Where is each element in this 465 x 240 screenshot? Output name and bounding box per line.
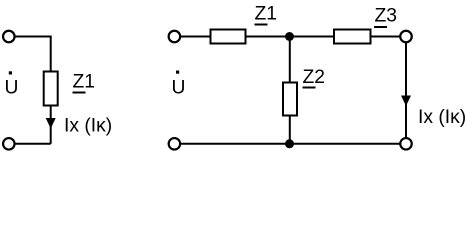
terminal (right circuit, top-left) bbox=[169, 31, 181, 43]
terminal (left circuit, bottom-left) bbox=[3, 138, 15, 150]
wire (left circuit, from top terminal right then down to Z1) bbox=[15, 37, 50, 72]
svg-text:Ix (Iκ): Ix (Iκ) bbox=[64, 116, 112, 137]
wire (right circuit, bottom rail) bbox=[181, 143, 400, 145]
terminal (right circuit, bottom-right) bbox=[400, 138, 412, 150]
node (junction of Z1, Z2, Z3) bbox=[285, 32, 294, 41]
resistor Z1 (left circuit, vertical impedance box) bbox=[44, 72, 58, 106]
arrow Ix (right circuit, current arrow pointing down) bbox=[401, 96, 411, 107]
wire (right circuit, node down to Z2) bbox=[289, 37, 291, 83]
svg-text:Z1: Z1 bbox=[255, 4, 278, 25]
svg-text:Z1: Z1 bbox=[73, 72, 96, 93]
label Z1 (right circuit) bbox=[255, 4, 278, 26]
wire (right circuit, down from top-right terminal) bbox=[405, 43, 407, 137]
label Z2 bbox=[303, 67, 326, 89]
svg-text:Ix (Iκ): Ix (Iκ) bbox=[418, 107, 465, 128]
terminal (right circuit, bottom-left) bbox=[169, 138, 181, 150]
resistor Z2 (vertical impedance box) bbox=[283, 83, 297, 116]
svg-text:U: U bbox=[5, 78, 19, 99]
resistor Z1 (right circuit, horizontal impedance box) bbox=[211, 30, 246, 44]
wire (right circuit, top-left terminal to Z1) bbox=[181, 36, 211, 38]
svg-text:U: U bbox=[172, 78, 186, 99]
node (bottom junction of Z2 branch) bbox=[285, 139, 294, 148]
terminal (right circuit, top-right) bbox=[400, 31, 412, 43]
arrow Ix (left circuit, current arrow pointing down) bbox=[46, 118, 56, 129]
wire (right circuit, Z1 to Z3 through node) bbox=[246, 36, 335, 38]
svg-text:Z3: Z3 bbox=[375, 6, 398, 27]
label U (left circuit, source voltage with dot) bbox=[5, 71, 19, 98]
wire (left circuit, from Z1 down to bottom wire) bbox=[50, 106, 52, 144]
label U (right circuit, source voltage with dot) bbox=[172, 71, 186, 99]
label Z3 bbox=[374, 6, 397, 29]
wire (right circuit, Z2 down to bottom junction) bbox=[289, 116, 291, 144]
svg-text:Z2: Z2 bbox=[303, 67, 326, 88]
wire (right circuit, Z3 to top-right terminal) bbox=[371, 36, 401, 38]
wire (left circuit, bottom) bbox=[15, 143, 50, 145]
label Z1 (left circuit) bbox=[73, 72, 96, 94]
resistor Z3 (horizontal impedance box) bbox=[334, 30, 371, 44]
terminal (left circuit, top-left) bbox=[3, 31, 15, 43]
